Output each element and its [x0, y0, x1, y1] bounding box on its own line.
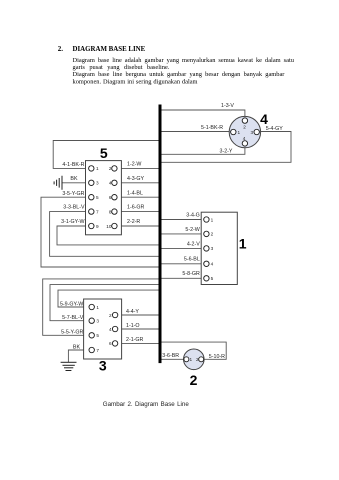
svg-text:4: 4 — [260, 111, 268, 127]
svg-text:2-2-R: 2-2-R — [127, 219, 140, 225]
svg-text:6: 6 — [109, 341, 112, 346]
svg-text:2: 2 — [190, 372, 198, 388]
svg-text:2: 2 — [109, 166, 112, 171]
svg-text:4: 4 — [211, 262, 214, 267]
svg-text:4: 4 — [109, 327, 112, 332]
svg-text:3-5-Y-GR: 3-5-Y-GR — [62, 191, 84, 197]
svg-text:5-9-GY-W: 5-9-GY-W — [60, 301, 83, 307]
svg-text:1-2-W: 1-2-W — [127, 162, 141, 168]
svg-text:2: 2 — [243, 124, 246, 129]
svg-text:10: 10 — [106, 224, 112, 229]
svg-text:1-4-BL: 1-4-BL — [127, 190, 143, 196]
svg-text:1: 1 — [190, 357, 193, 362]
svg-text:1: 1 — [211, 217, 214, 222]
svg-text:5: 5 — [96, 195, 99, 200]
svg-text:2: 2 — [196, 357, 199, 362]
svg-text:5: 5 — [211, 276, 214, 281]
svg-text:5-5-Y-GR: 5-5-Y-GR — [61, 330, 83, 336]
svg-text:DIAGRAM BASE LINE: DIAGRAM BASE LINE — [73, 46, 146, 53]
svg-text:Diagram base line berguna unt: Diagram base line berguna untuk gambar y… — [73, 71, 286, 78]
svg-text:Gambar 2. Diagram Base Line: Gambar 2. Diagram Base Line — [103, 401, 190, 408]
svg-text:3-4-G: 3-4-G — [186, 212, 200, 218]
svg-text:3-2-Y: 3-2-Y — [220, 148, 233, 154]
svg-text:komponen. Diagram ini sering: komponen. Diagram ini sering digunakan d… — [73, 79, 198, 86]
svg-text:3: 3 — [99, 357, 107, 373]
svg-text:6: 6 — [109, 195, 112, 200]
svg-text:1: 1 — [239, 236, 247, 252]
svg-text:3: 3 — [96, 319, 99, 324]
svg-text:2-1-GR: 2-1-GR — [126, 337, 144, 343]
svg-text:5-10-R: 5-10-R — [209, 354, 225, 360]
svg-text:1-3-V: 1-3-V — [221, 103, 234, 109]
svg-text:3-1-GY-W: 3-1-GY-W — [61, 219, 84, 225]
svg-text:7: 7 — [96, 209, 99, 214]
svg-text:4-3-GY: 4-3-GY — [127, 176, 145, 182]
svg-text:5-1-BK-R: 5-1-BK-R — [201, 125, 223, 131]
svg-text:3: 3 — [211, 246, 214, 251]
svg-text:5-2-W: 5-2-W — [185, 227, 199, 233]
svg-text:3: 3 — [251, 130, 254, 135]
svg-text:5-6-BL: 5-6-BL — [184, 257, 200, 263]
svg-text:7: 7 — [96, 348, 99, 353]
svg-text:3-6-BR: 3-6-BR — [162, 353, 179, 359]
svg-text:1: 1 — [96, 305, 99, 310]
svg-text:4-2-V: 4-2-V — [187, 241, 200, 247]
svg-text:2: 2 — [211, 232, 214, 237]
svg-text:BK: BK — [70, 176, 78, 182]
svg-text:9: 9 — [96, 224, 99, 229]
svg-text:2: 2 — [109, 313, 112, 318]
svg-text:3: 3 — [96, 181, 99, 186]
svg-text:Diagram base line adalah gamb: Diagram base line adalah gambar yang men… — [73, 57, 295, 64]
svg-text:4-1-BK-R: 4-1-BK-R — [62, 162, 84, 168]
svg-text:1: 1 — [96, 166, 99, 171]
svg-text:BK: BK — [73, 345, 81, 351]
svg-text:4-4-Y: 4-4-Y — [126, 309, 139, 315]
svg-text:4: 4 — [109, 181, 112, 186]
svg-text:5: 5 — [96, 333, 99, 338]
svg-text:1-6-GR: 1-6-GR — [127, 205, 145, 211]
svg-text:3-3-BL-V: 3-3-BL-V — [63, 205, 85, 211]
svg-text:4: 4 — [243, 136, 246, 141]
svg-text:8: 8 — [109, 209, 112, 214]
svg-text:1-1-O: 1-1-O — [126, 323, 140, 329]
svg-text:garis pusat yang disebut base: garis pusat yang disebut baseline. — [73, 64, 170, 71]
svg-text:1: 1 — [238, 130, 241, 135]
svg-text:2.: 2. — [58, 45, 64, 53]
svg-text:5-7-BL-V: 5-7-BL-V — [62, 315, 84, 321]
svg-text:5-8-GR: 5-8-GR — [182, 271, 200, 277]
svg-text:5: 5 — [100, 145, 108, 161]
svg-text:5-4-GY: 5-4-GY — [266, 126, 284, 132]
